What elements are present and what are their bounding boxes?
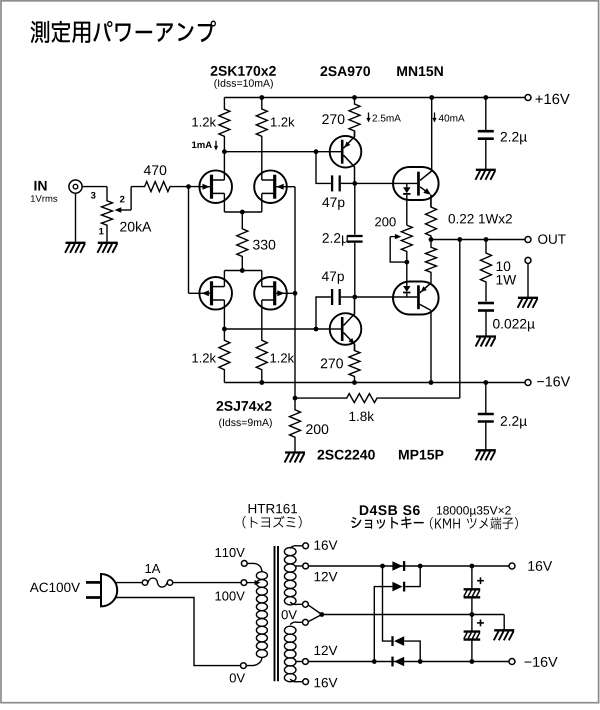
node D1 D2 cathode join	[418, 564, 423, 569]
wire 16V top lead	[290, 546, 303, 549]
label OUT	[538, 234, 566, 244]
tap arrow 100V	[247, 582, 255, 584]
wire lower 0V lead	[290, 622, 302, 624]
label 0.022u	[493, 319, 535, 331]
label 12V lower	[315, 646, 338, 655]
transistor Q5 2SA970	[330, 136, 362, 168]
wire 0V drop to ground	[503, 615, 505, 630]
resistor R9 1.8k feedback	[295, 394, 460, 403]
label 12V upper	[315, 572, 338, 581]
JFET Q4 2SJ74 right	[254, 277, 287, 310]
wire Q2 source	[261, 193, 263, 212]
label (Idss=10mA)	[214, 79, 273, 89]
terminal 100V	[241, 580, 247, 586]
label MN15N	[397, 66, 443, 76]
transformer T1 core	[274, 546, 276, 681]
node drain lower-left	[222, 327, 227, 332]
wire MP15P base	[355, 296, 417, 298]
wire Q6 emitter to R 270 lower	[354, 344, 356, 351]
Q8 internal diode	[406, 285, 408, 287]
label 1Vrms	[31, 195, 57, 202]
diode D1	[392, 561, 402, 571]
node rail 270	[352, 95, 357, 100]
JFET Q3 2SJ74 left	[199, 277, 232, 310]
wire wiper loop	[390, 237, 407, 263]
Q7 base bar	[417, 172, 420, 196]
Q8 collector diagonal	[420, 304, 431, 310]
wire Q3 drain	[223, 300, 225, 329]
capacitor C1 18000u	[471, 566, 473, 589]
transistor Q6 2SC2240	[330, 313, 362, 345]
resistor R4 1.2k lower-right	[256, 329, 267, 383]
label 1.8k	[350, 411, 375, 421]
wire +16V rail	[224, 97, 524, 99]
wire VAS column lower	[354, 243, 356, 297]
wire Q6 collector up	[354, 297, 356, 314]
node rail MN15N collector	[429, 95, 434, 100]
wire D2 anode branch	[374, 587, 392, 662]
wire D3 cathode branch	[383, 566, 392, 641]
label 2SC2240	[317, 450, 374, 460]
node feedback tap	[457, 237, 462, 242]
center tap diagonal lower	[308, 615, 322, 622]
wire lower node to 2SC2240 base	[224, 328, 330, 330]
resistor 470	[131, 182, 199, 192]
node VAS out lower	[352, 295, 357, 300]
node source join upper	[240, 210, 245, 215]
diode D2	[392, 582, 402, 592]
wire Q4 drain	[261, 300, 263, 329]
label 20kA	[120, 221, 151, 231]
label 47p upper	[322, 198, 344, 210]
node VAS out upper	[352, 181, 357, 186]
terminal 0V upper	[303, 601, 309, 607]
node feedback join	[293, 396, 298, 401]
title text paths	[30, 20, 215, 43]
node rail-neg R4	[259, 380, 264, 385]
toyozumi text	[243, 516, 302, 528]
Q8 emitter diagonal with arrow	[420, 283, 431, 293]
wire source join lower	[224, 270, 261, 272]
label 2.2u upper	[501, 132, 527, 144]
Q7 collector wire to rail	[431, 98, 433, 172]
node load tap	[484, 237, 489, 242]
Q8 base bar	[417, 285, 420, 309]
ground at potentiometer	[98, 242, 118, 244]
wire plug to fuse	[115, 582, 142, 584]
label 470	[144, 165, 166, 175]
label 40mA current arrow	[434, 113, 436, 120]
wire Q1 drain	[223, 152, 225, 180]
capacitor 47p lower	[331, 289, 333, 305]
wire 12V lower tap	[296, 661, 303, 663]
wire source join upper	[224, 211, 261, 213]
capacitor 47p upper	[331, 175, 333, 191]
terminal 16V bottom	[303, 679, 309, 685]
wire 0V center line	[322, 614, 504, 616]
terminal 0V lower	[303, 619, 309, 625]
wire speaker ground	[527, 264, 529, 298]
ground at jack	[66, 242, 86, 244]
resistor R10 200 shunt	[290, 398, 301, 452]
wire Q4 source	[261, 271, 263, 287]
terminal 16V top	[303, 543, 309, 549]
label 2SJ74x2	[216, 401, 271, 411]
terminal 12V upper	[303, 563, 309, 569]
wire wiper to 470	[130, 187, 132, 210]
JFET Q1 2SK170 left	[199, 170, 232, 203]
resistor R330	[237, 212, 248, 271]
ground at lower bypass	[476, 449, 496, 451]
label -16V	[537, 376, 570, 386]
wire MN15N base	[355, 182, 417, 184]
label 1.2k R1	[192, 117, 216, 126]
label IN	[34, 181, 46, 191]
wire OUT line	[431, 239, 525, 241]
label 1W	[497, 275, 517, 284]
wire gate Q4 lead	[287, 292, 295, 294]
node D3 D4 anode join	[418, 659, 423, 664]
label D4SB S6	[360, 505, 420, 515]
label -16V output	[525, 657, 558, 667]
wire 16V bottom lead	[290, 679, 303, 682]
node D2 anode join	[372, 659, 377, 664]
transistor Q7 MN15N stadium	[393, 167, 439, 200]
label 1A	[145, 564, 160, 573]
trimmer wiper arrow	[390, 236, 396, 238]
wire trimmer node to Q8 diode	[406, 262, 408, 286]
label 2.5mA current arrow	[368, 113, 370, 120]
label 1.2k R3	[192, 353, 216, 362]
wire 0V lead	[246, 657, 262, 665]
wire Q2 drain	[261, 152, 263, 180]
wire drain node to VAS base	[224, 151, 330, 153]
node 0V cap junction	[470, 612, 475, 617]
node C2 bottom	[470, 659, 475, 664]
capacitor 2.2u middle	[347, 235, 363, 237]
capacitor C2 18000u	[471, 597, 473, 614]
potentiometer VR1 20kA	[102, 187, 113, 243]
node filter cap1 top	[470, 564, 475, 569]
Q7 emitter diagonal with arrow	[420, 187, 429, 194]
ground at speaker terminal	[518, 297, 538, 299]
ground at upper bypass	[476, 169, 496, 171]
capacitor C 2.2u upper bypass	[485, 98, 487, 131]
JFET Q2 2SK170 right	[254, 170, 287, 203]
wire 47p right lower	[341, 296, 355, 298]
capacitor C2 plus sign	[477, 622, 484, 624]
wire Q5 collector down	[354, 166, 356, 183]
wire VAS column upper	[354, 183, 356, 234]
wire plug lower to 0V tap	[115, 598, 240, 666]
transformer primary winding	[256, 572, 267, 580]
label 1mA down-arrow	[192, 141, 212, 148]
label +16V	[536, 94, 570, 104]
Q7 internal diode	[406, 183, 408, 187]
terminal 0V primary	[241, 663, 247, 669]
terminal 16V output	[509, 563, 515, 569]
diode D4	[394, 657, 404, 667]
wire D3 anode branch	[404, 641, 420, 661]
label 0V secondary	[282, 610, 297, 619]
label 1.2k R4	[270, 353, 294, 362]
node 47p tap upper	[314, 149, 319, 154]
transformer secondary lower winding	[284, 626, 296, 634]
label 16V bottom	[315, 678, 338, 688]
wire positive rectifier line	[309, 565, 509, 567]
label MP15P	[399, 450, 443, 460]
ground at R10	[285, 451, 305, 453]
pot pin label 1	[99, 228, 103, 235]
wire gate column left	[188, 187, 190, 294]
resistor R2 1.2k upper-right	[256, 98, 267, 152]
fuse F1 1A	[142, 580, 147, 585]
wire Q7 diode to trimmer	[406, 195, 408, 225]
transformer secondary upper winding	[284, 548, 296, 556]
KMH text	[430, 517, 518, 529]
resistor R3 1.2k lower-left	[219, 329, 230, 383]
trimmer RT 200	[401, 225, 412, 262]
resistor R5 270 upper	[349, 98, 360, 138]
ground at 0.022u	[476, 335, 496, 337]
node rail-neg MP15P collector	[429, 380, 434, 385]
pot pin label 3	[91, 192, 96, 199]
wire negative rectifier line	[308, 661, 508, 663]
wire 110V lead	[247, 563, 262, 571]
wire gate column right	[294, 187, 296, 398]
wire feedback column	[459, 240, 461, 399]
label 2SK170x2	[211, 66, 276, 76]
label 10	[497, 261, 511, 271]
node emitter join OUT	[429, 237, 434, 242]
pot wiper arrow	[120, 209, 132, 211]
wire -16V rail	[224, 382, 524, 384]
wire 47p left branch upper	[316, 152, 331, 184]
wire Q7 emitter to R7	[430, 195, 432, 207]
label 330	[253, 240, 275, 250]
terminal 12V lower	[303, 659, 309, 665]
node D1 anode	[380, 564, 385, 569]
node input gate junction	[186, 184, 191, 189]
label 100V	[215, 591, 244, 600]
node rail-neg 270	[352, 380, 357, 385]
node trimmer bottom	[404, 260, 409, 265]
AC plug P1	[101, 574, 117, 606]
wire jack to pot	[82, 186, 107, 188]
wire gate Q2 lead	[287, 186, 295, 188]
node rail R2	[259, 95, 264, 100]
input jack J1	[69, 180, 82, 193]
pot pin label 2	[120, 196, 125, 203]
transistor Q8 MP15P stadium	[393, 282, 439, 315]
label 200 shunt	[306, 424, 328, 434]
terminal -16V output	[509, 659, 515, 665]
terminal 110V	[241, 561, 247, 567]
node source join lower	[240, 268, 245, 273]
wire jack ground stem	[75, 193, 77, 243]
center tap diagonal upper	[308, 605, 322, 615]
wire upper 0V lead	[290, 602, 302, 604]
label 2.2u middle	[323, 233, 349, 245]
resistor R6 270 lower	[349, 344, 360, 383]
label (Idss=9mA)	[219, 418, 272, 428]
label 270 lower	[321, 358, 343, 368]
capacitor C 2.2u lower bypass	[485, 383, 487, 414]
Q7 collector diagonal	[420, 171, 432, 180]
label 16V output	[528, 561, 552, 571]
label 2.2u lower	[501, 416, 527, 428]
label 47p lower	[322, 272, 344, 284]
label 110V	[215, 548, 244, 557]
terminal OUT	[525, 237, 531, 243]
wire Q5 emitter to R5	[354, 131, 356, 137]
label 18000u35Vx2	[437, 506, 511, 517]
schottky text	[351, 516, 424, 528]
ground at PSU 0V	[494, 629, 514, 631]
node rail bypass cap	[483, 95, 488, 100]
node rail-neg bypass cap	[483, 380, 488, 385]
label HTR161	[249, 504, 298, 514]
terminal -16V	[525, 380, 531, 386]
plug prong upper	[86, 581, 101, 584]
capacitor 0.022u	[478, 302, 494, 305]
node drain-left	[222, 149, 227, 154]
wire gate Q3 lead	[189, 292, 200, 294]
node 47p tap lower	[314, 327, 319, 332]
wire D2 cathode branch	[405, 566, 420, 587]
wire 12V upper tap	[296, 565, 303, 567]
capacitor C1 plus sign	[477, 580, 484, 582]
label 200 trimmer	[375, 217, 396, 226]
terminal +16V	[525, 95, 531, 101]
diode D3	[394, 636, 404, 646]
resistor R1 1.2k upper-left	[219, 98, 230, 152]
wire fuse to 100V tap	[173, 582, 241, 584]
node center tap	[319, 612, 324, 617]
label 1.2k R2	[271, 117, 295, 126]
resistor R11 10 1W load	[481, 240, 492, 302]
terminal speaker ground	[525, 257, 531, 263]
Q8 collector wire to neg rail	[430, 311, 432, 383]
plug prong lower	[86, 596, 101, 599]
label 0.22 1Wx2	[449, 214, 512, 224]
label 0V primary	[230, 673, 245, 682]
wire Q1 source	[223, 193, 225, 212]
resistor R8 0.22 lower	[426, 240, 437, 284]
node gate right lower	[293, 291, 298, 296]
label 16V top	[315, 540, 338, 550]
wire 0.022u to ground	[485, 311, 487, 337]
wire Q3 source	[223, 271, 225, 287]
label 2SA970	[320, 66, 370, 76]
wire 47p left branch lower	[316, 297, 331, 329]
wire 47p right upper	[341, 182, 355, 184]
resistor R7 0.22 upper	[426, 195, 437, 240]
label 270 upper	[322, 114, 344, 124]
label AC100V	[30, 583, 80, 593]
